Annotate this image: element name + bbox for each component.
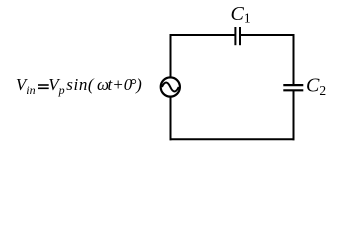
label: source equation Vin = Vp sin(wt+0deg), equals sign drawn as lines [38,84,49,86]
wire: left side, upper segment (source top up to top-left corner) [170,34,172,77]
wire: top side, right segment (from C1 right plate to top-right corner) [240,34,295,36]
wire: right side, lower segment (C2 bottom plate down to bottom-right corner) [293,90,295,140]
wire: left side, lower segment (bottom-left corner up to source bottom) [170,97,172,140]
svg-text:VinVpsin(ωt+0°): VinVpsin(ωt+0°) [16,75,142,97]
wire: bottom side [170,138,295,140]
svg-text:C1: C1 [231,3,251,26]
wire: top side, left segment (from top-left corner to C1 left plate) [170,34,236,36]
svg-text:C2: C2 [306,74,326,98]
wire: right side, upper segment (top-right corner down to C2 top plate) [293,34,295,85]
capacitor C1 (top wire) [235,27,240,45]
capacitor C2 (right wire) [283,85,303,90]
AC voltage source Vin (circle with sine wave) [161,77,180,96]
